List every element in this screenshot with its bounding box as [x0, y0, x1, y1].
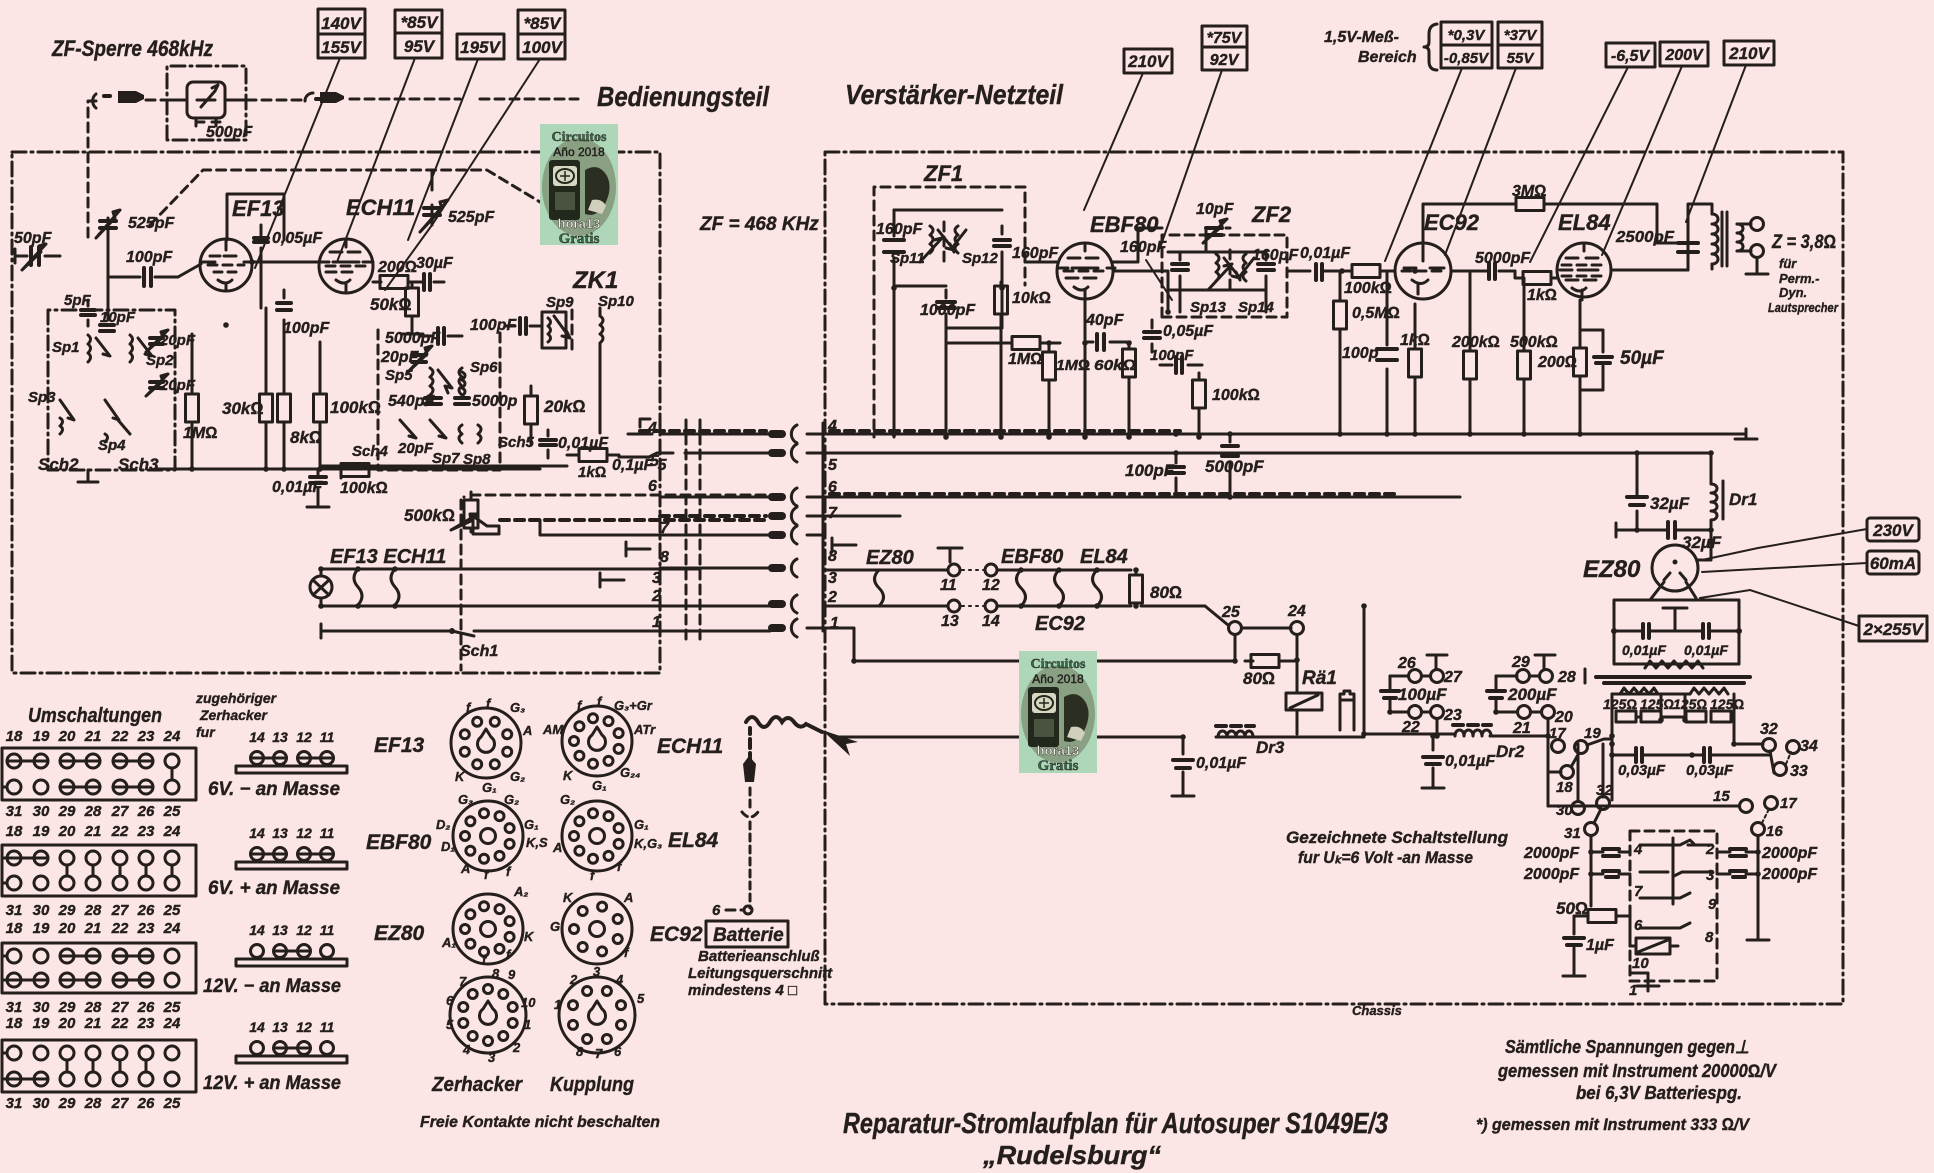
svg-text:5000pF: 5000pF: [385, 330, 441, 347]
svg-text:Sp12: Sp12: [962, 250, 999, 267]
node 4 tbar: [628, 419, 652, 434]
wire callout 195V: [408, 59, 478, 240]
svg-text:21: 21: [84, 823, 102, 840]
svg-text:3: 3: [593, 964, 601, 979]
resistor 500k: [1518, 278, 1531, 434]
wire dots 11-12: [962, 569, 984, 571]
svg-text:27: 27: [111, 803, 129, 820]
resistor 100k zf: [1193, 373, 1206, 437]
voltage box 0,3V/-0,85V: [1441, 22, 1492, 68]
svg-text:160pF: 160pF: [1120, 239, 1167, 256]
wire row5 left: [685, 452, 768, 455]
socket Zerhacker pin labels: [446, 966, 536, 1065]
svg-text:125Ω: 125Ω: [1640, 696, 1674, 712]
socket Kupplung pin labels: [554, 964, 645, 1061]
contact 11: [948, 564, 960, 576]
socket EBF80: [453, 801, 523, 871]
wire 32uF row: [1616, 529, 1668, 532]
capacitor 2000pF d: [1717, 871, 1758, 877]
svg-text:27: 27: [111, 902, 129, 919]
wire callout 0,3V: [1385, 68, 1462, 261]
svg-text:10: 10: [1632, 955, 1649, 972]
ground in box: [1663, 608, 1687, 631]
svg-text:33: 33: [1790, 763, 1808, 780]
switch table 2 contacts: [2, 851, 179, 890]
wire main B line: [1364, 734, 1548, 806]
svg-text:Sch1: Sch1: [460, 643, 498, 660]
svg-text:11: 11: [320, 825, 335, 841]
svg-text:0,01µF: 0,01µF: [1300, 245, 1351, 262]
capacitor 1000pF: [937, 290, 955, 328]
tbar 8 bed: [626, 542, 650, 556]
heater curl EZ80: [875, 570, 884, 606]
capacitor 2000pF b: [1591, 871, 1630, 877]
svg-text:14: 14: [982, 613, 1000, 630]
battery cable dashed: [748, 728, 752, 742]
svg-text:ZF2: ZF2: [1251, 202, 1292, 227]
tbar 26: [1427, 655, 1447, 669]
svg-text:bei 6,3V Batteriespg.: bei 6,3V Batteriespg.: [1576, 1083, 1742, 1103]
svg-text:92V: 92V: [1210, 52, 1240, 69]
battery plug: [743, 756, 756, 782]
svg-text:28: 28: [84, 902, 102, 919]
svg-text:Sämtliche Spannungen gegen⊥: Sämtliche Spannungen gegen⊥: [1505, 1037, 1749, 1057]
wire 18 left: [1548, 771, 1561, 774]
svg-text:Perm.-: Perm.-: [1779, 271, 1819, 286]
svg-text:11: 11: [320, 1019, 335, 1035]
svg-text:ECH11: ECH11: [657, 735, 723, 758]
svg-text:G₂₄: G₂₄: [620, 765, 640, 780]
capacitor 40pF: [1085, 299, 1130, 350]
voltage box 200V: [1660, 42, 1708, 66]
coil Sp11: [920, 222, 954, 262]
contact 30: [1572, 802, 1585, 815]
switch table 3 box: [2, 943, 196, 993]
capacitor 5000pF b: [455, 398, 469, 404]
ground tbar 32uF: [1615, 523, 1618, 537]
svg-text:12: 12: [982, 577, 1000, 594]
svg-text:G₃: G₃: [458, 792, 473, 807]
svg-text:13: 13: [272, 922, 288, 938]
svg-text:-6,5V: -6,5V: [1611, 48, 1651, 65]
svg-text:19: 19: [33, 728, 50, 745]
svg-text:Batterieanschluß: Batterieanschluß: [698, 948, 820, 965]
svg-text:EZ80: EZ80: [1583, 556, 1641, 583]
tube EC92: [1395, 210, 1480, 299]
dashed box ZF-Sperre filter: [167, 66, 246, 140]
wire bus b verst: [1310, 452, 1711, 455]
svg-text:27: 27: [111, 1095, 129, 1112]
svg-text:25: 25: [163, 803, 181, 820]
svg-text:100pF: 100pF: [470, 317, 517, 334]
svg-text:31: 31: [6, 902, 23, 919]
svg-text:K: K: [524, 929, 535, 944]
svg-text:Año 2018: Año 2018: [553, 145, 605, 159]
contact 15: [1740, 800, 1753, 813]
svg-text:Sp1: Sp1: [52, 339, 80, 356]
resistor 200 Ohm el84: [1574, 300, 1587, 434]
wire heater bottom right: [823, 606, 1228, 625]
svg-text:210V: 210V: [1127, 52, 1169, 71]
svg-text:21: 21: [1512, 720, 1531, 737]
wire callout 92V: [1160, 70, 1222, 248]
svg-text:0,5MΩ: 0,5MΩ: [1352, 305, 1400, 322]
svg-text:ATr: ATr: [633, 722, 656, 737]
zigzag 125 a: [1620, 688, 1658, 694]
svg-text:25: 25: [163, 999, 181, 1016]
svg-text:Reparatur-Stromlaufplan für Au: Reparatur-Stromlaufplan für Autosuper S1…: [843, 1108, 1388, 1140]
wire antenna drop dashed: [88, 101, 96, 238]
svg-text:-0,85V: -0,85V: [1444, 50, 1490, 67]
wire zf2 top: [1168, 228, 1266, 312]
capacitor 500pF: [196, 118, 220, 126]
svg-text:D₂: D₂: [436, 817, 450, 832]
svg-text:31: 31: [6, 803, 23, 820]
pin bar row5: [768, 449, 786, 457]
svg-text:55V: 55V: [1507, 50, 1536, 67]
wire ZF1 left edge down: [873, 285, 876, 437]
svg-text:30µF: 30µF: [416, 255, 454, 272]
capacitor 5000pF c: [1451, 263, 1515, 279]
svg-text:3MΩ: 3MΩ: [1512, 183, 1547, 200]
svg-text:20pF: 20pF: [159, 377, 196, 394]
svg-text:100kΩ: 100kΩ: [1344, 280, 1392, 297]
svg-text:20pF: 20pF: [159, 332, 196, 349]
wire row4 left dashes: [640, 429, 766, 433]
svg-text:1MΩ: 1MΩ: [1008, 351, 1043, 368]
wire vib right rail: [1734, 744, 1758, 930]
svg-text:Umschaltungen: Umschaltungen: [28, 705, 162, 727]
resistor 125 d: [1711, 711, 1731, 722]
svg-text:6V. + an Masse: 6V. + an Masse: [208, 878, 340, 899]
svg-text:60kΩ: 60kΩ: [1094, 357, 1137, 374]
svg-text:EBF80: EBF80: [1090, 212, 1159, 237]
svg-text:29: 29: [1511, 654, 1530, 671]
svg-text:19: 19: [33, 823, 50, 840]
svg-text:ZF1: ZF1: [923, 161, 963, 186]
svg-text:2000pF: 2000pF: [1523, 845, 1580, 862]
svg-text:G₁: G₁: [524, 817, 539, 832]
box 60mA: [1867, 551, 1919, 574]
zerhacker bar 3: [236, 945, 347, 967]
svg-text:Z = 3,8Ω: Z = 3,8Ω: [1771, 232, 1836, 253]
wire EL84 anode: [1584, 243, 1688, 270]
resistor 60k: [1123, 343, 1136, 437]
svg-text:160pF: 160pF: [1012, 245, 1059, 262]
heater curl EC92: [1055, 570, 1064, 606]
svg-text:140V: 140V: [321, 14, 362, 33]
wire Sch1 line: [321, 626, 770, 636]
svg-text:12: 12: [296, 1019, 312, 1035]
watermark 2: [1019, 651, 1097, 774]
wire bus4 dashes: [830, 429, 1180, 433]
resistor 8k: [278, 355, 291, 469]
ground vib right: [1747, 930, 1769, 940]
svg-text:7: 7: [459, 974, 467, 989]
zerhacker bar 1: [236, 752, 347, 774]
svg-text:30: 30: [33, 1095, 50, 1112]
svg-text:200µF: 200µF: [1507, 685, 1557, 704]
svg-text:6: 6: [712, 902, 721, 919]
svg-text:0,01µF: 0,01µF: [1684, 642, 1728, 658]
svg-text:A₁: A₁: [441, 935, 456, 950]
svg-text:26: 26: [137, 803, 155, 820]
svg-text:14: 14: [249, 1019, 265, 1035]
wire dashed antenna to right: [350, 98, 578, 101]
dashed box ZF1: [874, 187, 1025, 285]
capacitor 100pF c: [1377, 271, 1397, 434]
pin bar row6: [768, 493, 786, 501]
capacitor 0,03uF a: [1612, 748, 1692, 762]
switch table 4 numbers top: [6, 1015, 181, 1032]
wire callout 140V: [255, 58, 340, 268]
capacitor 0,05uF ebf: [1144, 320, 1160, 352]
capacitor 0,01uF t2: [1703, 624, 1709, 638]
svg-text:2000pF: 2000pF: [1761, 845, 1818, 862]
contact 13: [948, 600, 960, 612]
svg-text:28: 28: [84, 1095, 102, 1112]
svg-text:3: 3: [652, 570, 661, 587]
svg-text:11: 11: [320, 922, 335, 938]
capacitor 5000pF bus: [1222, 434, 1238, 497]
svg-text:ECH11: ECH11: [346, 195, 415, 220]
trimmer 525pF right: [420, 170, 448, 232]
svg-text:50pF: 50pF: [14, 230, 53, 247]
resistor 1k: [567, 449, 619, 462]
svg-text:100pF: 100pF: [1125, 461, 1175, 480]
svg-text:Freie Kontakte nicht beschalte: Freie Kontakte nicht beschalten: [420, 1114, 660, 1131]
svg-text:1kΩ: 1kΩ: [1400, 332, 1430, 349]
capacitor 0,01uF dr2: [1422, 736, 1444, 788]
svg-text:Sp2: Sp2: [146, 352, 174, 369]
svg-text:500kΩ: 500kΩ: [404, 506, 455, 525]
contact 32: [1763, 739, 1776, 752]
svg-text:95V: 95V: [404, 37, 436, 56]
socket ECH11 pin labels: [542, 694, 656, 793]
switch table 4 contacts: [2, 1046, 179, 1086]
svg-text:6: 6: [648, 478, 657, 495]
wire bus4 right: [807, 433, 1711, 436]
svg-text:11: 11: [940, 577, 957, 594]
svg-text:24: 24: [1287, 603, 1306, 620]
wire bus5 right: [807, 452, 1711, 455]
svg-text:125Ω: 125Ω: [1673, 696, 1707, 712]
svg-text:Dr1: Dr1: [1729, 490, 1757, 509]
terminal 6 batt: [712, 902, 752, 919]
svg-text:4: 4: [1633, 841, 1643, 858]
Bedienungsteil dash-dot box: [12, 152, 660, 673]
svg-text:Dyn.: Dyn.: [1779, 285, 1807, 300]
svg-text:13: 13: [941, 613, 959, 630]
wire dashed to plug2: [247, 99, 305, 102]
svg-text:ZF = 468 KHz: ZF = 468 KHz: [699, 214, 819, 235]
svg-text:K: K: [455, 769, 466, 784]
label 28 tbar: [1584, 669, 1587, 683]
svg-text:Dr3: Dr3: [1256, 738, 1285, 757]
wire bottom bus bedienung: [155, 468, 540, 471]
socket Kupplung: [559, 977, 635, 1053]
svg-text:18: 18: [6, 920, 23, 937]
svg-text:0,01µF: 0,01µF: [272, 479, 323, 496]
wire ebf80 anode: [1085, 228, 1168, 437]
Verstaerker dash-dot box: [825, 152, 1843, 1004]
wire row8 left: [660, 567, 768, 570]
wire blade 31-32: [1594, 809, 1601, 823]
svg-text:500pF: 500pF: [206, 124, 253, 141]
capacitor 0,01uF out: [1316, 264, 1342, 280]
inner dashed route: [150, 170, 545, 225]
wire EZ80 cathode leads: [1650, 582, 1696, 600]
vibrator contacts inside: [1640, 838, 1712, 928]
svg-text:Sch3: Sch3: [118, 455, 159, 474]
svg-text:540pF: 540pF: [388, 393, 435, 410]
wire 33 blade: [1786, 752, 1791, 764]
svg-text:Chassis: Chassis: [1352, 1003, 1402, 1018]
svg-text:Gratis: Gratis: [1038, 758, 1079, 774]
svg-text:4: 4: [615, 972, 624, 987]
svg-text:1: 1: [524, 1017, 531, 1032]
wire pin1 tbar: [1637, 981, 1659, 991]
svg-text:26: 26: [1397, 655, 1416, 672]
pin bar row4: [768, 430, 786, 438]
connector shield dashed verticals: [686, 420, 700, 640]
pin bar row7b: [768, 531, 786, 539]
svg-text:50Ω: 50Ω: [1556, 899, 1588, 918]
svg-text:Sp3: Sp3: [28, 389, 56, 406]
coil Sp1: [88, 335, 110, 362]
tbar Sch1: [320, 624, 323, 638]
capacitor 100pF second: [277, 290, 291, 355]
svg-text:0,01µF: 0,01µF: [1622, 642, 1666, 658]
resistor 30k: [260, 308, 273, 469]
pin arc row7b: [791, 526, 797, 544]
svg-text:23: 23: [137, 728, 155, 745]
capacitor 160pF zf1b: [994, 226, 1010, 288]
svg-text:Batterie: Batterie: [713, 925, 784, 946]
wire line5 bed: [320, 453, 673, 466]
svg-text:19: 19: [33, 1015, 50, 1032]
svg-text:zugehöriger: zugehöriger: [195, 690, 278, 706]
dashed box Sp1-Sp4: [48, 310, 175, 470]
svg-text:AM: AM: [542, 722, 564, 737]
svg-text:ZF-Sperre 468kHz: ZF-Sperre 468kHz: [51, 36, 213, 61]
svg-text:18: 18: [6, 1015, 23, 1032]
voltage box *85V/95V: [395, 10, 442, 58]
svg-text:7: 7: [828, 505, 838, 522]
battery hook: [742, 788, 758, 908]
box Batterie: [706, 921, 788, 947]
wire vib left rail2: [1578, 744, 1603, 906]
svg-text:195V: 195V: [460, 38, 501, 57]
contact 18v: [1561, 766, 1574, 779]
switch table 2 numbers top: [6, 823, 181, 840]
svg-text:G₃+Gr: G₃+Gr: [614, 698, 653, 713]
resistor 100k vert: [314, 342, 327, 469]
svg-text:5000pF: 5000pF: [1475, 250, 1531, 267]
capacitor 10pF: [100, 325, 114, 331]
svg-text:*37V: *37V: [1504, 27, 1539, 44]
svg-text:5: 5: [446, 1017, 454, 1032]
svg-text:5: 5: [650, 453, 660, 470]
wire callout 200V: [1602, 66, 1682, 255]
wire callout 100V: [385, 59, 540, 290]
svg-text:14: 14: [249, 922, 265, 938]
socket EF13: [451, 708, 521, 778]
resistor 1k ec92: [1409, 304, 1422, 434]
svg-text:2: 2: [1705, 841, 1715, 858]
wire EBF80 grid: [1025, 261, 1057, 264]
svg-text:G₂: G₂: [560, 792, 575, 807]
svg-text:22: 22: [111, 1015, 129, 1032]
svg-text:60mA: 60mA: [1870, 554, 1916, 573]
svg-text:Circuitos: Circuitos: [552, 130, 608, 145]
svg-text:2000pF: 2000pF: [1523, 866, 1580, 883]
svg-text:100pF: 100pF: [1150, 347, 1194, 364]
wire row7 left: [660, 514, 766, 518]
contact 31: [1585, 823, 1598, 836]
svg-text:200Ω: 200Ω: [377, 259, 417, 276]
svg-text:210V: 210V: [1728, 44, 1770, 63]
socket EL84: [562, 801, 632, 871]
svg-text:100kΩ: 100kΩ: [330, 398, 381, 417]
svg-text:10pF: 10pF: [1196, 201, 1235, 218]
svg-text:fur: fur: [196, 724, 216, 740]
svg-text:1: 1: [554, 997, 561, 1012]
wire callout 160pF: [1146, 260, 1172, 300]
voltage box 210V (EBF80): [1124, 49, 1172, 73]
resistor 0,5M: [1334, 271, 1347, 434]
resistor 100k bottom: [341, 464, 369, 479]
svg-text:100kΩ: 100kΩ: [340, 480, 388, 497]
svg-text:125Ω: 125Ω: [1603, 696, 1637, 712]
tbar 11: [938, 548, 962, 562]
svg-text:20: 20: [58, 823, 76, 840]
zerhacker bar 4: [236, 1042, 347, 1064]
contact 19v: [1575, 741, 1588, 754]
switch table 4 numbers bottom: [6, 1095, 181, 1112]
svg-text:100V: 100V: [522, 38, 563, 57]
wire main line left: [836, 736, 1364, 739]
svg-text:Leitungsquerschnitt: Leitungsquerschnitt: [688, 965, 833, 982]
coil Sp5: [430, 368, 452, 395]
wire heater top bed: [321, 569, 700, 576]
dot Sch1: [449, 628, 455, 634]
svg-text:14: 14: [249, 825, 265, 841]
trimmer 20pF a: [408, 346, 432, 372]
svg-text:1,5V-Meß-: 1,5V-Meß-: [1324, 29, 1399, 46]
svg-text:12V. − an Masse: 12V. − an Masse: [203, 976, 341, 997]
svg-text:24: 24: [163, 1015, 181, 1032]
potentiometer 500k: [451, 492, 499, 534]
svg-text:12V. + an Masse: 12V. + an Masse: [203, 1073, 341, 1094]
pin bar row1: [768, 624, 786, 632]
capacitor 160pF zf1: [884, 210, 904, 288]
contact 25: [1229, 622, 1242, 635]
voltage box *85V/100V: [518, 10, 565, 59]
zerhacker bar 3 numbers: [249, 922, 334, 938]
svg-text:20pF: 20pF: [380, 349, 420, 366]
dashed box Sp5-Sp8: [378, 330, 500, 470]
switch table 4 box: [2, 1040, 196, 1092]
svg-text:7: 7: [1634, 883, 1643, 900]
svg-text:EBF80: EBF80: [1001, 546, 1063, 568]
svg-text:21: 21: [84, 728, 102, 745]
capacitor 30uF: [420, 274, 444, 290]
zigzag 125 b: [1690, 688, 1728, 694]
voltage box 210V right: [1724, 41, 1774, 65]
svg-text:29: 29: [58, 803, 76, 820]
svg-text:30: 30: [33, 803, 50, 820]
